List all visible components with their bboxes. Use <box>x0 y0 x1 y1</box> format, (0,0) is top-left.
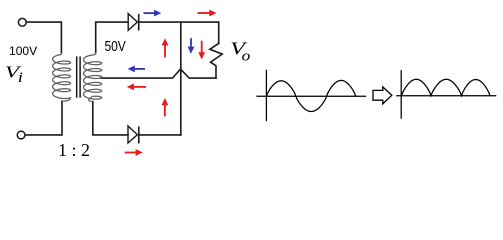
wire input bottom <box>25 101 62 135</box>
block arrow between waveforms <box>373 87 392 104</box>
transformer T1 secondary winding <box>84 53 102 102</box>
arrow red up (mid lower) <box>164 103 166 116</box>
arrow red up (mid upper) <box>164 43 166 57</box>
wire cathode bus vertical <box>180 22 182 135</box>
svg-text:o: o <box>242 48 251 64</box>
wire input top <box>26 22 61 53</box>
wire center tap with hop over bus <box>101 69 216 78</box>
svg-text:50V: 50V <box>105 38 126 55</box>
arrow blue left (center tap) <box>133 68 145 70</box>
transformer core <box>77 56 80 97</box>
terminal input bottom <box>17 131 25 139</box>
diode D1 <box>128 14 139 31</box>
terminal input top <box>18 18 26 26</box>
wire secondary top to rail <box>96 22 128 52</box>
arrow red right (top right) <box>198 12 212 14</box>
svg-text:i: i <box>18 69 24 86</box>
wire bottom rail after D2 <box>139 134 181 136</box>
input waveform axes <box>256 70 366 121</box>
output rectified humps <box>402 79 491 96</box>
arrow red left (center tap) <box>132 86 146 88</box>
arrow blue down <box>190 38 192 48</box>
arrow red down <box>201 41 203 55</box>
resistor RL zigzag <box>210 43 222 78</box>
input sine wave <box>266 80 355 111</box>
wire top rail after D1 <box>139 21 219 23</box>
output waveform axes <box>396 70 496 119</box>
arrow red right (bottom, below D2) <box>125 152 138 154</box>
wire secondary bottom to rail <box>93 102 128 135</box>
resistor RL top lead <box>218 22 220 43</box>
arrow blue right (top, after D1) <box>144 12 157 14</box>
svg-text:100V: 100V <box>9 44 37 58</box>
svg-text:1 : 2: 1 : 2 <box>58 140 90 160</box>
diode D2 <box>128 126 139 143</box>
transformer T1 primary winding <box>53 53 71 102</box>
